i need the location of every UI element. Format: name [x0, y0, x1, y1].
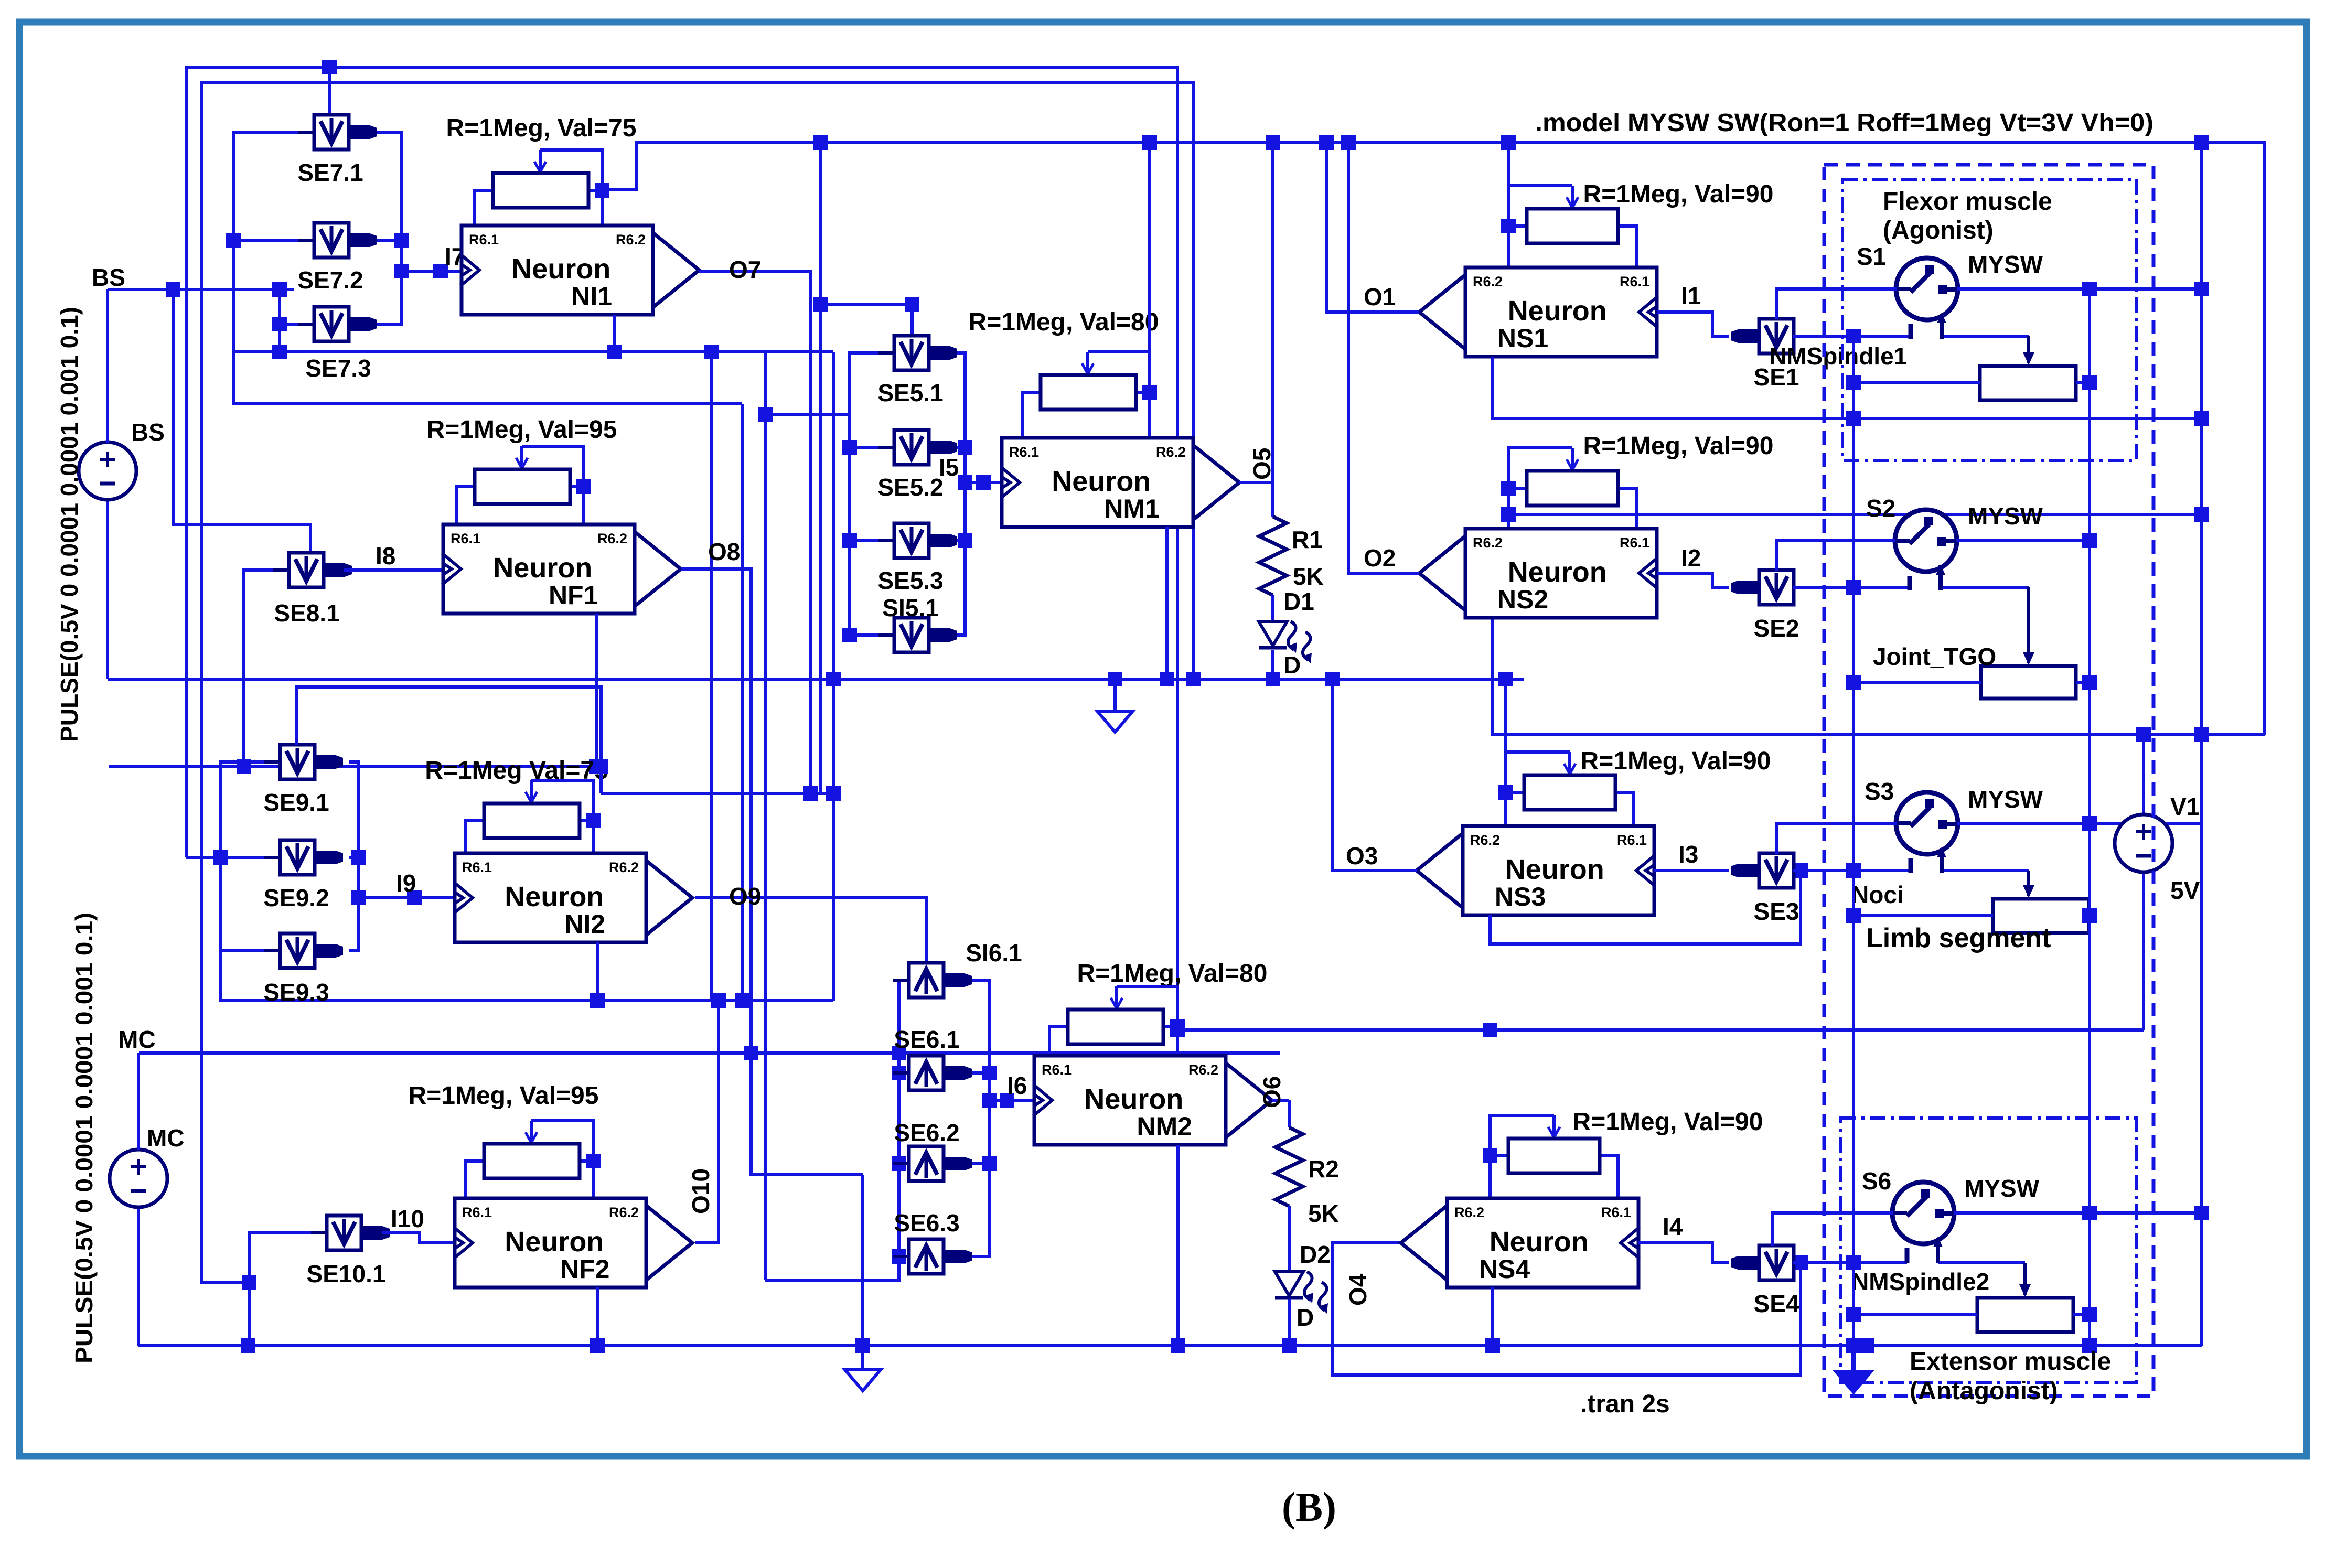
junction bus5-mid — [704, 345, 719, 359]
label S6 MYSW — [1964, 1175, 2040, 1202]
junction joint right — [2082, 675, 2097, 690]
svg-text:S6: S6 — [1862, 1167, 1891, 1195]
label NMSpindle1 — [1769, 342, 1907, 370]
svg-text:5K: 5K — [1293, 563, 1324, 590]
svg-text:D2: D2 — [1300, 1241, 1331, 1268]
wire NM1 bottom pin — [1165, 527, 1169, 679]
junction SE5 y790 — [758, 407, 773, 422]
synapse SE9.2 — [264, 840, 343, 875]
wire mid bus y1462 — [109, 765, 601, 768]
label NS2 RC value — [1583, 432, 1774, 460]
label S2 — [1866, 495, 1895, 522]
neuron NF2 — [454, 1198, 692, 1287]
wire SE9 left rail — [220, 762, 280, 951]
svg-text:R2: R2 — [1308, 1155, 1339, 1183]
junction SE5 rail d — [958, 440, 972, 455]
wire top bus H3 — [602, 143, 2265, 735]
neuron NS1 — [1419, 267, 1658, 357]
svg-text:R6.1: R6.1 — [1620, 274, 1649, 289]
svg-text:I6: I6 — [1007, 1072, 1027, 1099]
label SI6.1 — [966, 939, 1022, 966]
wire SE7.3 left — [280, 323, 315, 326]
label O1 — [1364, 283, 1396, 310]
junction bus5-se73 — [272, 345, 287, 359]
label O2 — [1364, 544, 1396, 572]
neuron NS2 — [1419, 529, 1658, 618]
label D2 D — [1297, 1304, 1314, 1331]
junction y2566 x2246 — [1171, 1338, 1185, 1353]
svg-text:S1: S1 — [1857, 243, 1886, 270]
svg-text:Neuron: Neuron — [505, 1226, 604, 1258]
synapse SI6.1 — [893, 963, 972, 997]
label I10 — [391, 1205, 424, 1232]
junction SE9 rail a — [213, 850, 228, 865]
svg-text:MYSW: MYSW — [1968, 502, 2043, 530]
wire MC net y2008 — [139, 1051, 1280, 1055]
rc block NS2 — [1501, 448, 1636, 529]
svg-text:NF1: NF1 — [549, 581, 598, 610]
svg-text:SE10.1: SE10.1 — [307, 1260, 386, 1287]
svg-text:SE7.2: SE7.2 — [297, 266, 363, 294]
label SE7.2 — [297, 266, 363, 294]
svg-text:R=1Meg, Val=90: R=1Meg, Val=90 — [1581, 747, 1771, 775]
label NS3 RC value — [1581, 747, 1771, 775]
svg-text:I3: I3 — [1678, 841, 1698, 868]
svg-text:R=1Meg, Val=75: R=1Meg, Val=75 — [446, 114, 637, 142]
neuron NI1 — [460, 225, 699, 315]
label SE6.2 — [894, 1119, 959, 1146]
junction H2-SE10 — [242, 1275, 256, 1290]
synapse SE7.2 — [298, 223, 377, 257]
junction y1288 c — [1266, 672, 1280, 686]
label BS node — [92, 264, 125, 291]
svg-text:R6.2: R6.2 — [1473, 274, 1503, 289]
junction x1146-y1462 — [594, 759, 608, 774]
wire SE6 left rail — [765, 980, 909, 1280]
label NF2 RC value — [409, 1082, 599, 1110]
voltage source BS — [79, 289, 136, 500]
label SE4 — [1754, 1290, 1799, 1317]
wire SE9.2 left — [220, 856, 280, 859]
neuron NI2 — [454, 853, 692, 942]
junction y798 b — [2194, 411, 2209, 426]
wire SE6 right rail — [944, 980, 990, 1256]
wire I7 — [401, 270, 462, 273]
svg-text:SE6.2: SE6.2 — [894, 1119, 959, 1146]
wire V1 bottom — [2142, 872, 2145, 1030]
svg-text:R6.2: R6.2 — [597, 531, 627, 546]
resistor Joint_TGO — [1981, 666, 2076, 699]
junction y1908 a — [590, 993, 605, 1008]
wire SE7.1 left — [233, 132, 742, 404]
junction y1288 b — [1108, 672, 1122, 686]
switch S1 — [1776, 258, 2202, 339]
svg-text:I1: I1 — [1681, 282, 1701, 309]
svg-text:PULSE(0.5V 0 0.0001 0.0001 0.0: PULSE(0.5V 0 0.0001 0.0001 0.001 0.1) — [56, 307, 83, 742]
wire I2 route — [1657, 573, 1729, 587]
label model directive — [1535, 109, 2153, 137]
svg-text:Neuron: Neuron — [1505, 854, 1604, 885]
svg-text:(B): (B) — [1282, 1484, 1336, 1530]
label S6 — [1862, 1167, 1891, 1195]
wire NF1 bottom pin — [595, 614, 598, 767]
junction y2566 x2846 — [1485, 1338, 1500, 1353]
wire SE7.2 left — [233, 239, 315, 242]
svg-text:SE9.1: SE9.1 — [263, 789, 329, 816]
svg-text:SE9.3: SE9.3 — [263, 979, 329, 1006]
svg-text:R6.2: R6.2 — [1454, 1205, 1484, 1220]
svg-text:NS1: NS1 — [1497, 324, 1548, 353]
resistor NMSpindle1 — [1980, 366, 2076, 400]
svg-text:R=1Meg, Val=95: R=1Meg, Val=95 — [409, 1082, 599, 1110]
label I3 — [1678, 841, 1698, 868]
wire mid spine x1589 — [832, 352, 835, 1001]
label NF1 RC value — [427, 416, 617, 444]
wire SE6.2 stub wire — [944, 1162, 990, 1165]
svg-text:Neuron: Neuron — [1508, 295, 1607, 327]
wire BS drop — [173, 289, 310, 553]
junction y1462 b — [589, 759, 604, 774]
svg-text:(Antagonist): (Antagonist) — [1910, 1377, 2058, 1405]
wire ground bus y1288 — [108, 499, 1524, 679]
junction spindle2 right — [2082, 1307, 2097, 1322]
label I9 — [396, 869, 416, 897]
junction BS — [166, 282, 180, 297]
svg-text:NS2: NS2 — [1497, 585, 1548, 614]
wire BS-SE7.3 drop — [278, 289, 281, 352]
junction SE5 rail f — [958, 475, 972, 490]
svg-text:Extensor muscle: Extensor muscle — [1910, 1348, 2111, 1376]
junction y1288 f — [1160, 672, 1174, 686]
wire noci arrow — [2023, 871, 2034, 898]
synapse SE7.1 — [298, 115, 377, 149]
wire SE5 right rail — [947, 353, 965, 635]
wire I9 — [358, 896, 455, 899]
neuron NS3 — [1417, 826, 1655, 915]
junction y1288 e — [1498, 672, 1513, 686]
svg-text:Neuron: Neuron — [1084, 1083, 1183, 1115]
label SI5.1 — [882, 594, 938, 621]
label SE5.3 — [877, 567, 943, 594]
wire SE6.1 left — [899, 1071, 909, 1075]
wire R2-D2 — [1288, 1206, 1291, 1272]
wire O2 — [1348, 143, 1419, 573]
rc block NI1 — [475, 150, 609, 225]
label Noci — [1851, 881, 1904, 908]
svg-text:R6.2: R6.2 — [616, 232, 646, 248]
wire NS3 bottom pin — [1490, 871, 1801, 944]
label I4 — [1663, 1213, 1683, 1240]
wire top bus H2 — [202, 83, 1193, 1283]
junction NS1 feed — [1501, 135, 1516, 150]
label SE5.1 — [877, 379, 943, 406]
junction y2566 x1139 — [590, 1338, 605, 1353]
ground extensor — [1836, 1346, 1871, 1392]
svg-text:NM2: NM2 — [1137, 1112, 1192, 1141]
label PULSE2 — [70, 912, 98, 1363]
svg-text:R6.1: R6.1 — [1617, 832, 1647, 848]
svg-text:D: D — [1297, 1304, 1314, 1331]
label BS source — [131, 418, 165, 446]
svg-text:NF2: NF2 — [560, 1254, 609, 1284]
svg-text:D1: D1 — [1283, 588, 1314, 615]
svg-text:S2: S2 — [1866, 495, 1895, 522]
svg-text:5K: 5K — [1308, 1200, 1339, 1227]
wire O7 — [699, 271, 810, 793]
junction SE6 rail d — [982, 1066, 997, 1080]
svg-text:NMSpindle1: NMSpindle1 — [1769, 342, 1907, 370]
junction y1288 g — [1186, 672, 1201, 686]
synapse SE1 — [1731, 319, 1809, 353]
label SE9.2 — [263, 884, 329, 911]
svg-text:SE7.1: SE7.1 — [297, 159, 363, 186]
label caption B — [1282, 1484, 1336, 1530]
label MC node — [118, 1026, 156, 1053]
junction S3 right — [2082, 816, 2097, 831]
svg-text:Neuron: Neuron — [1490, 1226, 1589, 1258]
neuron NS4 — [1401, 1198, 1640, 1287]
svg-text:I10: I10 — [391, 1205, 424, 1232]
svg-text:NS4: NS4 — [1479, 1254, 1530, 1284]
wire bus y1979 — [1177, 1028, 2144, 1032]
junction SE5 rail b — [842, 533, 857, 548]
junction O4-SE4 — [1793, 1255, 1808, 1270]
svg-text:SE7.3: SE7.3 — [305, 355, 371, 382]
label S1 MYSW — [1968, 251, 2043, 278]
dashdot box flexor — [1842, 179, 2136, 460]
junction I7 — [433, 264, 448, 278]
wire bus y1908 — [220, 951, 833, 1001]
svg-text:R=1Meg, Val=95: R=1Meg, Val=95 — [427, 416, 617, 444]
junction y2566 x3534 — [1846, 1338, 1861, 1353]
svg-text:BS: BS — [131, 418, 165, 446]
svg-text:V1: V1 — [2170, 793, 2200, 820]
junction SE7 rail b — [394, 264, 409, 278]
wire mid verticals x1459 — [764, 352, 767, 1280]
junction y798 a — [1846, 411, 1861, 426]
svg-text:SE5.2: SE5.2 — [877, 474, 943, 501]
svg-text:D: D — [1283, 651, 1301, 679]
wire I4 route — [1638, 1243, 1729, 1263]
wire noci right lead — [2089, 914, 2090, 917]
svg-text:R=1Meg, Val=90: R=1Meg, Val=90 — [1573, 1108, 1763, 1136]
wire SE5.3 stub wire — [947, 539, 965, 542]
svg-text:O6: O6 — [1258, 1076, 1285, 1108]
wire joint right lead — [2076, 681, 2090, 684]
svg-text:R=1Meg, Val=90: R=1Meg, Val=90 — [1583, 180, 1774, 208]
label O9 — [729, 883, 761, 910]
wire I3 route — [1654, 869, 1729, 872]
svg-text:NI1: NI1 — [571, 282, 612, 311]
junction SE9 rail c — [351, 890, 366, 905]
junction y1401 a — [2194, 727, 2209, 742]
rc block NF1 — [456, 446, 591, 524]
wire spindle1 arrow — [2023, 336, 2034, 365]
junction y981 b — [2194, 507, 2209, 522]
wire I6 — [990, 1099, 1034, 1102]
junction y1288 d — [1325, 672, 1340, 686]
wire O5 node — [1239, 135, 1280, 517]
wire joint arrow — [2023, 587, 2034, 665]
junction x1556-y581 — [813, 297, 828, 312]
label SE6.1 — [894, 1026, 959, 1053]
wire I8 — [344, 568, 443, 572]
label Joint_TGO — [1873, 643, 1996, 670]
wire R2 top lead — [1288, 1100, 1291, 1127]
svg-text:R6.1: R6.1 — [1620, 535, 1649, 551]
svg-text:R6.1: R6.1 — [1601, 1205, 1631, 1220]
svg-text:O7: O7 — [729, 256, 761, 283]
svg-text:R6.2: R6.2 — [609, 860, 639, 875]
resistor NMSpindle2 — [1977, 1298, 2073, 1332]
junction noci left — [1846, 908, 1861, 923]
svg-text:R6.2: R6.2 — [609, 1205, 639, 1220]
junction SE6 rail b — [892, 1156, 906, 1171]
wire SE9 right rail — [349, 762, 358, 951]
synapse SE9.1 — [264, 745, 343, 779]
wire right vert x3534 — [1852, 336, 1855, 1346]
svg-text:R6.1: R6.1 — [1009, 444, 1039, 460]
junction SE2 out — [1846, 580, 1861, 595]
svg-text:SE6.3: SE6.3 — [894, 1209, 959, 1237]
synapse SE7.3 — [298, 307, 377, 341]
label NS1 RC value — [1583, 180, 1774, 208]
junction S1 right b — [2194, 282, 2209, 296]
wire SE6.1 stub wire — [944, 1071, 990, 1075]
neuron NM1 — [1001, 438, 1239, 527]
junction O2 top — [1341, 135, 1356, 150]
label O8 — [708, 538, 740, 565]
wire SE5.3 left — [850, 539, 895, 542]
rc block NS3 — [1498, 752, 1634, 826]
label NMSpindle2 — [1851, 1268, 1989, 1295]
wire bus under NI1 — [233, 350, 833, 353]
label SE7.1 — [297, 159, 363, 186]
resistor Noci — [1993, 899, 2089, 933]
svg-text:MYSW: MYSW — [1968, 786, 2043, 813]
label O4 — [1344, 1273, 1372, 1306]
svg-text:SE2: SE2 — [1754, 615, 1799, 642]
junction NS2 feed — [1501, 507, 1516, 522]
synapse SE5.3 — [878, 523, 957, 558]
label V1 value — [2170, 877, 2200, 904]
led D1 — [1259, 621, 1312, 663]
label MC source — [147, 1124, 185, 1152]
junction SE5 rail a — [842, 440, 857, 455]
wire top bus H1 — [186, 67, 1177, 1030]
svg-text:.model MYSW SW(Ron=1 Roff=1Meg: .model MYSW SW(Ron=1 Roff=1Meg Vt=3V Vh=… — [1535, 109, 2153, 137]
label S3 MYSW — [1968, 786, 2043, 813]
wire spindle2 left lead — [1853, 1313, 1977, 1316]
synapse SE2 — [1731, 570, 1809, 605]
svg-text:MYSW: MYSW — [1964, 1175, 2040, 1202]
wire O1 — [1326, 143, 1419, 312]
svg-text:BS: BS — [92, 264, 125, 291]
switch S3 — [1776, 792, 2202, 873]
svg-text:R6.1: R6.1 — [462, 1205, 492, 1220]
junction SE9 rail b — [351, 850, 366, 865]
wire SE2 out — [1793, 586, 2029, 589]
wire D1 bottom — [1271, 650, 1274, 679]
junction SE4 out — [1846, 1255, 1861, 1270]
label SE1 — [1754, 363, 1799, 391]
junction x1589-y1295 — [826, 672, 841, 686]
label SE3 — [1754, 898, 1799, 925]
label SE2 — [1754, 615, 1799, 642]
wire spindle1 right lead — [2076, 381, 2090, 384]
svg-text:O1: O1 — [1364, 283, 1396, 310]
junction y1401 c — [2136, 727, 2151, 742]
label I7 — [445, 243, 465, 270]
wire O8 label wire — [681, 567, 751, 571]
label extensor 1 — [1910, 1348, 2111, 1376]
junction SE1 out — [1846, 329, 1861, 343]
wire NM2 bottom pin — [1176, 1145, 1180, 1346]
junction I5 — [976, 475, 991, 490]
junction BS2 — [272, 282, 287, 297]
junction y2566 x3984 — [2082, 1338, 2097, 1353]
label flexor 1 — [1883, 188, 2052, 216]
label O5 — [1248, 448, 1276, 480]
resistor R1 — [1259, 517, 1287, 595]
junction H1-SE7 — [322, 60, 337, 74]
wire SE5 feed y790 — [765, 413, 850, 416]
rc block NS4 — [1483, 1115, 1618, 1198]
junction I6 — [1000, 1093, 1014, 1108]
svg-text:SE3: SE3 — [1754, 898, 1799, 925]
wire spindle1 left lead — [1853, 381, 1980, 384]
junction noci right — [2082, 908, 2097, 923]
wire NS1 bottom pin — [1492, 357, 2202, 418]
svg-text:SE4: SE4 — [1754, 1290, 1799, 1317]
wire R1-D1 — [1271, 595, 1274, 621]
junction SE6 rail c — [892, 1249, 906, 1264]
wire NM1 top feed — [1148, 143, 1151, 352]
wire D2 bottom — [1288, 1299, 1291, 1346]
label R2 — [1308, 1155, 1339, 1183]
svg-text:MC: MC — [118, 1026, 156, 1053]
wire SE1 out — [1793, 335, 2029, 338]
junction SE6 rail a — [892, 1066, 906, 1080]
svg-text:Flexor muscle: Flexor muscle — [1883, 188, 2052, 216]
wire SE7.2 stub wire — [367, 239, 401, 242]
led D2 — [1275, 1272, 1328, 1314]
wire NI2 bottom pin — [596, 942, 599, 1001]
svg-text:O10: O10 — [687, 1168, 714, 1214]
svg-text:SE5.3: SE5.3 — [877, 567, 943, 594]
svg-text:O4: O4 — [1344, 1273, 1372, 1306]
synapse SE6.3 — [893, 1239, 972, 1274]
svg-text:Limb segment: Limb segment — [1866, 923, 2051, 953]
label SE9.3 — [263, 979, 329, 1006]
label SE8.1 — [274, 599, 339, 627]
svg-text:R=1Meg, Val=90: R=1Meg, Val=90 — [1583, 432, 1774, 460]
voltage source V1 — [2115, 814, 2172, 872]
svg-text:I5: I5 — [939, 454, 959, 481]
synapse SE3 — [1731, 853, 1809, 888]
wire mid verticals x1432 — [681, 569, 863, 1175]
junction SE7 rail a — [394, 233, 409, 248]
wire V1 top — [2142, 735, 2145, 814]
svg-text:R6.1: R6.1 — [451, 531, 480, 546]
wire noci left lead — [1853, 914, 1993, 917]
junction SE5 rail c — [842, 628, 857, 642]
junction O7-y1513 — [803, 786, 818, 801]
svg-text:5V: 5V — [2170, 877, 2200, 904]
wire SE8.1 left — [244, 570, 290, 767]
synapse SE10.1 — [311, 1216, 390, 1250]
wire NS2 RC feed — [1508, 513, 2202, 516]
